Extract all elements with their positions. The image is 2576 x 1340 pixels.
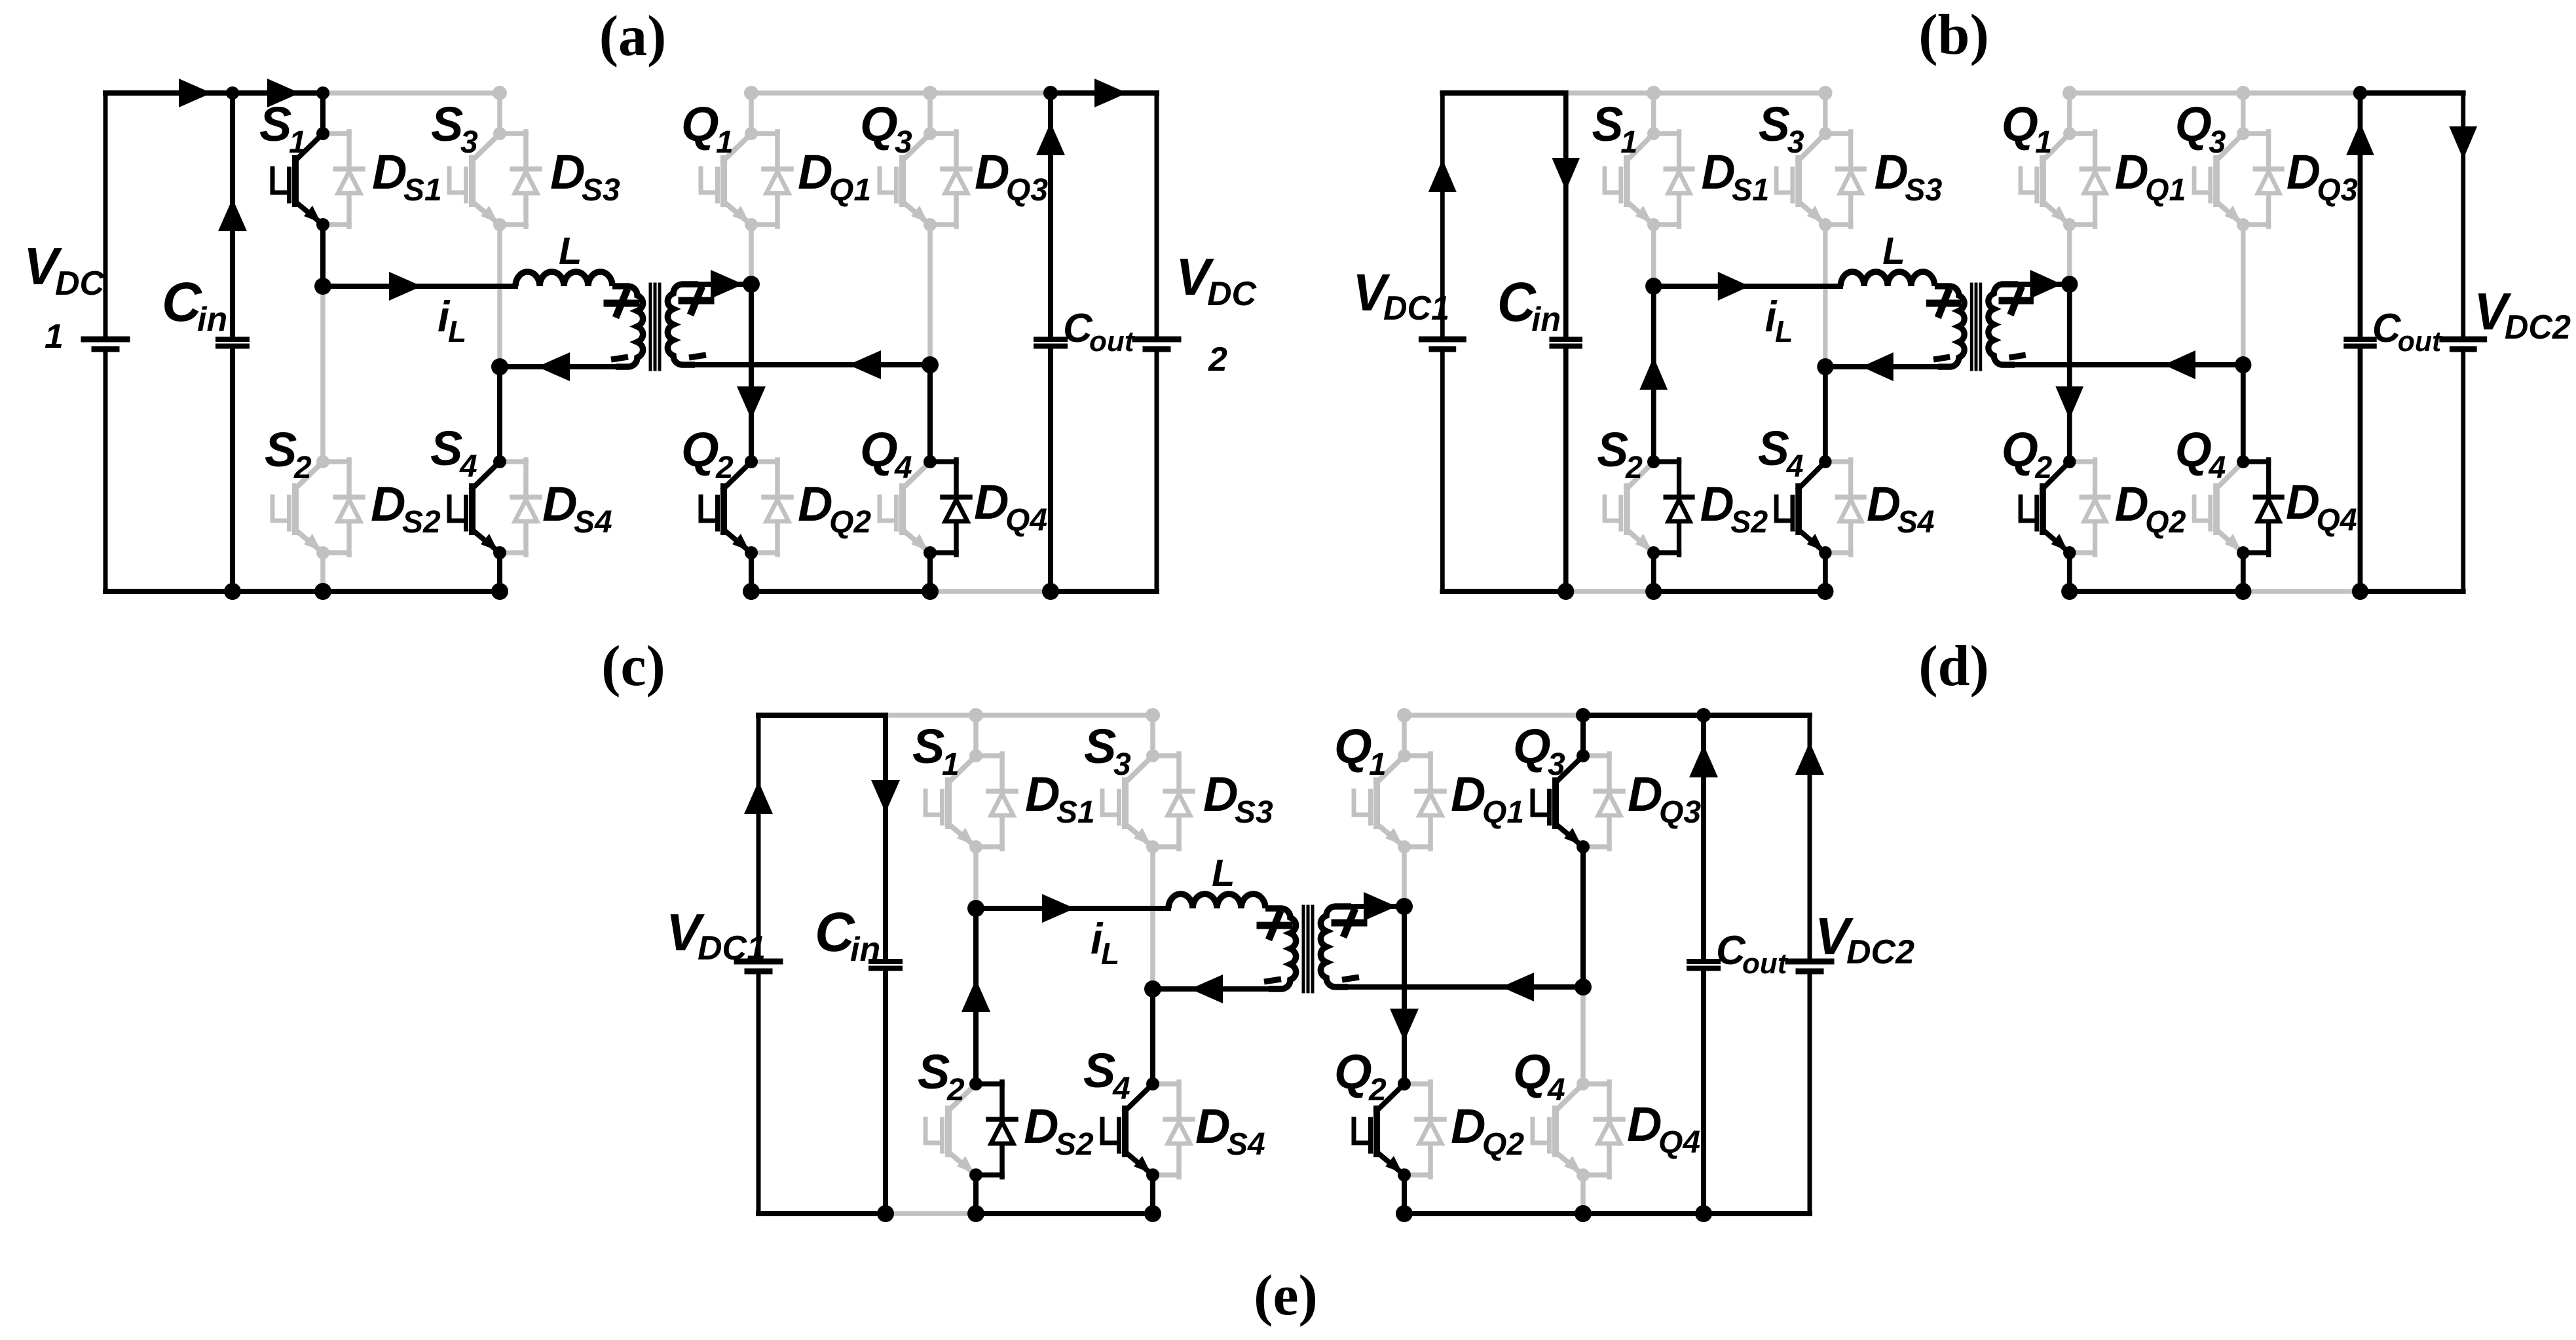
svg-text:L: L: [448, 314, 466, 348]
svg-text:(a): (a): [599, 5, 667, 68]
svg-text:S2: S2: [402, 505, 441, 540]
svg-text:in: in: [197, 301, 227, 339]
svg-text:(d): (d): [1918, 635, 1989, 698]
svg-text:D: D: [1024, 1099, 1058, 1153]
svg-text:out: out: [1742, 948, 1789, 980]
svg-text:Q2: Q2: [2145, 504, 2186, 540]
svg-text:1: 1: [1620, 124, 1637, 160]
svg-text:D: D: [1451, 767, 1485, 821]
svg-text:D: D: [1025, 767, 1060, 821]
svg-text:S1: S1: [403, 173, 442, 208]
svg-text:1: 1: [289, 125, 307, 160]
svg-text:4: 4: [459, 449, 477, 484]
svg-text:3: 3: [2209, 124, 2226, 160]
svg-text:in: in: [850, 931, 880, 969]
svg-text:D: D: [2115, 477, 2149, 531]
svg-text:D: D: [1451, 1099, 1485, 1153]
svg-text:S2: S2: [1055, 1127, 1094, 1162]
svg-text:S3: S3: [582, 173, 620, 208]
svg-text:D: D: [1628, 767, 1662, 821]
svg-text:L: L: [1882, 230, 1905, 272]
svg-text:2: 2: [1208, 341, 1227, 379]
svg-text:DC: DC: [1207, 275, 1258, 313]
svg-text:3: 3: [460, 125, 478, 160]
svg-text:Q: Q: [681, 422, 719, 477]
svg-text:D: D: [1203, 767, 1238, 821]
svg-text:D: D: [975, 145, 1009, 199]
svg-text:D: D: [1867, 477, 1901, 531]
svg-text:1: 1: [1369, 747, 1387, 782]
svg-text:1: 1: [2035, 124, 2052, 160]
svg-text:C: C: [162, 271, 202, 333]
svg-text:(b): (b): [1918, 3, 1989, 67]
svg-text:C: C: [2372, 305, 2401, 350]
svg-text:Q: Q: [1334, 1045, 1372, 1099]
svg-text:D: D: [974, 475, 1009, 529]
svg-text:Q: Q: [2175, 423, 2212, 477]
svg-text:S: S: [912, 719, 944, 773]
svg-text:3: 3: [1548, 747, 1565, 782]
svg-text:D: D: [371, 477, 405, 531]
svg-text:Q: Q: [2002, 423, 2038, 477]
svg-text:DC2: DC2: [2505, 308, 2571, 346]
svg-text:Q4: Q4: [2316, 502, 2357, 538]
svg-text:S: S: [1084, 719, 1116, 773]
svg-text:(e): (e): [1254, 1264, 1318, 1328]
svg-text:S3: S3: [1235, 795, 1273, 830]
svg-text:4: 4: [894, 451, 912, 485]
svg-text:S: S: [1592, 98, 1624, 151]
svg-text:S: S: [1083, 1043, 1115, 1098]
svg-text:S: S: [1758, 422, 1789, 475]
svg-text:Q4: Q4: [1658, 1125, 1700, 1160]
svg-text:S: S: [265, 422, 297, 477]
svg-text:Q1: Q1: [1482, 795, 1524, 830]
svg-text:Q2: Q2: [1482, 1127, 1524, 1162]
svg-text:4: 4: [2208, 450, 2226, 485]
svg-text:Q2: Q2: [829, 505, 871, 540]
svg-text:Q4: Q4: [1005, 503, 1047, 538]
svg-text:L: L: [1212, 852, 1235, 895]
svg-text:S: S: [259, 97, 291, 151]
svg-text:2: 2: [1368, 1073, 1387, 1107]
svg-text:3: 3: [895, 125, 912, 160]
svg-text:2: 2: [2034, 450, 2052, 485]
svg-text:S4: S4: [1227, 1127, 1265, 1162]
svg-text:D: D: [372, 145, 407, 199]
svg-text:2: 2: [715, 451, 734, 485]
svg-text:D: D: [550, 145, 585, 199]
svg-text:Q: Q: [1513, 1045, 1551, 1099]
svg-text:out: out: [1089, 326, 1136, 358]
svg-text:D: D: [1700, 477, 1734, 531]
svg-text:S: S: [1597, 423, 1628, 477]
svg-text:out: out: [2398, 326, 2442, 358]
svg-text:Q: Q: [860, 422, 898, 477]
svg-text:D: D: [1875, 145, 1909, 199]
svg-text:S: S: [430, 421, 462, 475]
svg-text:Q: Q: [2002, 98, 2038, 151]
svg-text:S: S: [431, 97, 463, 151]
svg-text:D: D: [2115, 145, 2149, 199]
svg-text:1: 1: [942, 747, 960, 782]
svg-text:D: D: [1195, 1099, 1230, 1153]
svg-text:Q3: Q3: [1659, 795, 1701, 830]
svg-text:Q: Q: [1334, 719, 1372, 773]
svg-text:4: 4: [1112, 1071, 1130, 1106]
svg-text:2: 2: [946, 1073, 965, 1107]
svg-text:DC1: DC1: [698, 929, 766, 967]
svg-text:S4: S4: [1897, 504, 1935, 540]
svg-text:D: D: [2286, 475, 2320, 529]
svg-text:Q: Q: [1513, 719, 1551, 773]
svg-text:Q1: Q1: [829, 173, 871, 208]
svg-text:S3: S3: [1905, 172, 1942, 208]
svg-text:S2: S2: [1730, 504, 1768, 540]
svg-text:L: L: [1775, 314, 1793, 348]
svg-text:DC: DC: [55, 265, 105, 303]
svg-text:L: L: [559, 230, 582, 272]
svg-text:1: 1: [716, 125, 734, 160]
svg-text:C: C: [815, 901, 855, 963]
svg-text:L: L: [1101, 937, 1119, 971]
svg-text:Q: Q: [681, 97, 719, 151]
svg-text:D: D: [1702, 145, 1736, 199]
svg-text:S4: S4: [574, 505, 612, 540]
svg-text:3: 3: [1113, 747, 1131, 782]
svg-text:Q: Q: [2175, 98, 2212, 151]
svg-text:3: 3: [1787, 124, 1804, 160]
svg-text:4: 4: [1786, 449, 1804, 484]
svg-text:S1: S1: [1732, 172, 1769, 208]
svg-text:4: 4: [1547, 1073, 1565, 1107]
svg-text:(c): (c): [601, 635, 665, 698]
svg-text:S: S: [1759, 98, 1790, 151]
svg-text:S: S: [918, 1045, 950, 1099]
svg-text:D: D: [1627, 1097, 1662, 1151]
svg-text:Q3: Q3: [1006, 173, 1048, 208]
svg-text:Q: Q: [860, 97, 898, 151]
svg-text:C: C: [1497, 271, 1537, 333]
svg-text:DC1: DC1: [1383, 289, 1449, 327]
svg-text:Q3: Q3: [2317, 172, 2357, 208]
svg-text:Q1: Q1: [2145, 172, 2186, 208]
svg-text:D: D: [798, 477, 832, 531]
svg-text:S1: S1: [1056, 795, 1095, 830]
svg-text:D: D: [798, 145, 832, 199]
svg-text:in: in: [1531, 300, 1561, 338]
svg-text:2: 2: [1625, 450, 1643, 485]
svg-text:DC2: DC2: [1846, 933, 1914, 971]
svg-text:1: 1: [45, 318, 64, 356]
svg-text:D: D: [542, 477, 577, 531]
svg-text:2: 2: [293, 451, 312, 485]
svg-text:D: D: [2287, 145, 2321, 199]
